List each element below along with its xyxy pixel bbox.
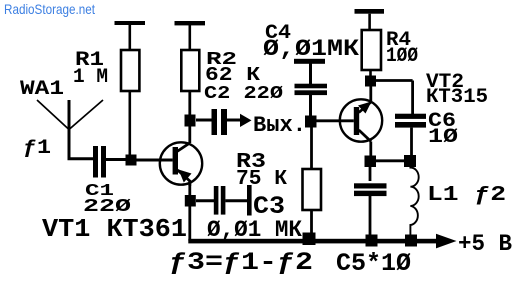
svg-text:С2 22Ø: С2 22Ø (204, 84, 283, 104)
svg-text:1 М: 1 М (73, 66, 108, 89)
wire R2 bottom through node to VT1 top (188, 91, 191, 143)
svg-text:+5 В: +5 В (458, 231, 512, 257)
node D junction on VT1 emitter line (185, 195, 196, 207)
svg-text:Вых.: Вых. (253, 113, 306, 138)
node G junction (L1/rail) (405, 235, 417, 247)
node E junction (R3/rail) (303, 233, 316, 246)
resistor R2 (175, 21, 206, 25)
wire node B to C2 (196, 119, 212, 122)
svg-text:1ØØ: 1ØØ (386, 45, 418, 68)
svg-text:62 К: 62 К (205, 64, 261, 86)
wire node I to node J (376, 159, 405, 162)
+5V arrow (436, 234, 457, 249)
svg-text:RadioStorage.net: RadioStorage.net (4, 1, 95, 17)
svg-text:75 К: 75 К (236, 168, 287, 191)
wire node A to VT1 base (136, 159, 173, 162)
capacitor C4 (295, 84, 328, 89)
node B junction (R2/C2/VT1) (185, 115, 196, 127)
capacitor C1 (93, 146, 98, 178)
wire C1 to node A (106, 158, 127, 161)
svg-text:1Ø: 1Ø (428, 126, 458, 149)
node F junction (C5/rail) (366, 235, 378, 247)
capacitor C2 (212, 109, 218, 135)
inductor L1 (410, 166, 418, 239)
wire VT2 collector down to node I (369, 142, 372, 157)
wire C3 to terminal (225, 199, 247, 202)
node I junction (VT2 collector/C5/L1) (365, 156, 377, 168)
resistor R1 (115, 21, 146, 25)
svg-text:ƒ1: ƒ1 (23, 137, 51, 160)
wire VT1 emitter down to rail (188, 181, 191, 241)
output arrow (240, 114, 252, 127)
wire node D to C3 (196, 199, 214, 202)
svg-text:С5*1Ø: С5*1Ø (336, 249, 411, 278)
capacitor C6 (395, 114, 426, 119)
wire VT2 emitter up to node H (369, 86, 372, 102)
node J junction (C6/L1) (404, 155, 416, 167)
resistor R4 (355, 9, 385, 14)
transistor VT1 (160, 142, 202, 186)
bottom rail wire (188, 239, 437, 244)
antenna WA1 (37, 100, 103, 159)
capacitor C5 (369, 167, 372, 181)
wire antenna to C1 (68, 157, 94, 160)
wire node C to VT2 base (317, 119, 354, 122)
svg-text:WA1: WA1 (20, 78, 64, 101)
transistor VT2 (340, 99, 382, 141)
node H junction (R4/VT2 emitter/C6) (365, 76, 376, 87)
svg-text:Ø,Ø1МК: Ø,Ø1МК (263, 36, 359, 62)
wire node H to C6 (376, 81, 413, 115)
capacitor C3 (214, 186, 219, 215)
resistor R3 (310, 127, 313, 169)
node A junction (126, 155, 137, 166)
wire C2 to output arrow (227, 119, 241, 122)
svg-text:ƒ3=ƒ1-ƒ2: ƒ3=ƒ1-ƒ2 (169, 248, 313, 277)
svg-text:L1 ƒ2: L1 ƒ2 (427, 184, 506, 207)
terminal bar C3 (247, 185, 252, 216)
svg-text:VT1 КТ361: VT1 КТ361 (42, 214, 187, 244)
node C junction (C4/R3/VT2 base) (305, 116, 317, 128)
svg-text:КТ315: КТ315 (426, 86, 488, 109)
capacitor C4 top terminal (294, 59, 325, 64)
